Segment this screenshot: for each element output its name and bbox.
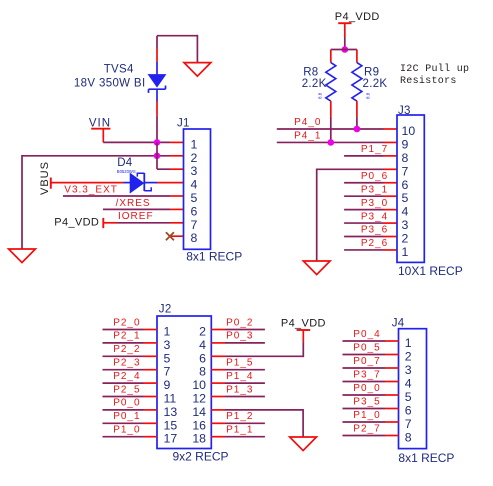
svg-text:1: 1 (191, 137, 198, 151)
svg-text:10: 10 (192, 378, 206, 392)
svg-text:P1_5: P1_5 (226, 358, 253, 369)
svg-text:P4_VDD: P4_VDD (335, 11, 380, 23)
svg-text:12: 12 (192, 392, 206, 406)
svg-text:P1_3: P1_3 (226, 384, 253, 395)
svg-text:Resistors: Resistors (400, 75, 457, 87)
svg-text:P4_VDD: P4_VDD (54, 217, 99, 229)
svg-text:2: 2 (199, 325, 206, 339)
svg-text:IOREF: IOREF (118, 211, 154, 222)
svg-text:8.8: 8.8 (318, 92, 323, 99)
svg-text:4: 4 (191, 178, 198, 192)
svg-text:J3: J3 (398, 105, 411, 117)
svg-text:J1: J1 (177, 118, 190, 130)
svg-text:1: 1 (405, 336, 412, 350)
svg-text:1: 1 (402, 245, 409, 259)
svg-text:P0_0: P0_0 (113, 398, 140, 409)
svg-text:P2_7: P2_7 (353, 423, 380, 434)
svg-text:P2_5: P2_5 (113, 384, 140, 395)
svg-text:8: 8 (402, 151, 409, 165)
svg-text:/XRES: /XRES (116, 198, 151, 209)
svg-text:2: 2 (191, 151, 198, 165)
svg-text:18: 18 (192, 432, 206, 446)
svg-text:9: 9 (164, 378, 171, 392)
svg-text:J4: J4 (392, 317, 405, 329)
svg-text:P0_2: P0_2 (226, 317, 253, 328)
svg-text:14: 14 (192, 405, 206, 419)
svg-text:P4_0: P4_0 (294, 117, 321, 128)
svg-text:P0_1: P0_1 (113, 411, 140, 422)
svg-text:15: 15 (164, 418, 178, 432)
svg-text:P1_2: P1_2 (226, 411, 253, 422)
svg-text:P1_7: P1_7 (361, 144, 388, 155)
svg-text:2.2K: 2.2K (302, 78, 327, 90)
svg-text:7: 7 (164, 365, 171, 379)
svg-text:P0_5: P0_5 (353, 342, 380, 353)
svg-text:6: 6 (402, 178, 409, 192)
svg-text:7: 7 (402, 164, 409, 178)
svg-text:P0_3: P0_3 (226, 331, 253, 342)
svg-text:5: 5 (402, 191, 409, 205)
svg-text:9x2 RECP: 9x2 RECP (173, 449, 229, 463)
svg-text:3: 3 (405, 363, 412, 377)
svg-text:3: 3 (402, 218, 409, 232)
svg-text:4: 4 (402, 205, 409, 219)
svg-text:P3_1: P3_1 (361, 184, 388, 195)
svg-text:8: 8 (199, 365, 206, 379)
svg-text:P3_7: P3_7 (353, 369, 380, 380)
svg-text:1: 1 (164, 325, 171, 339)
svg-text:17: 17 (164, 432, 178, 446)
svg-text:P0_6: P0_6 (361, 171, 388, 182)
svg-text:3: 3 (191, 164, 198, 178)
svg-text:P3_6: P3_6 (361, 225, 388, 236)
svg-text:P1_4: P1_4 (226, 371, 253, 382)
svg-text:P3_0: P3_0 (361, 198, 388, 209)
svg-text:P2_6: P2_6 (361, 238, 388, 249)
svg-text:18V 350W BI: 18V 350W BI (74, 77, 146, 89)
svg-text:10: 10 (402, 124, 416, 138)
svg-text:7: 7 (405, 417, 412, 431)
svg-text:P2_1: P2_1 (113, 331, 140, 342)
svg-text:P2_4: P2_4 (113, 371, 140, 382)
svg-text:6: 6 (191, 204, 198, 218)
svg-text:B0520WS: B0520WS (117, 169, 136, 174)
svg-text:5: 5 (164, 351, 171, 365)
svg-text:R8: R8 (303, 67, 318, 79)
svg-text:P2_2: P2_2 (113, 344, 140, 355)
svg-text:D4: D4 (117, 157, 133, 169)
svg-text:8: 8 (405, 431, 412, 445)
svg-text:9: 9 (402, 137, 409, 151)
svg-text:13: 13 (164, 405, 178, 419)
svg-text:7: 7 (191, 218, 198, 232)
svg-text:8x1 RECP: 8x1 RECP (186, 250, 242, 264)
svg-text:P0_4: P0_4 (353, 329, 380, 340)
svg-text:8.8: 8.8 (366, 92, 371, 99)
svg-text:P4_VDD: P4_VDD (281, 318, 326, 330)
svg-text:I2C Pull up: I2C Pull up (400, 63, 469, 75)
svg-text:8: 8 (191, 231, 198, 245)
svg-text:P0_7: P0_7 (353, 356, 380, 367)
svg-text:2: 2 (402, 232, 409, 246)
svg-text:P1_1: P1_1 (226, 425, 253, 436)
svg-text:P0_0: P0_0 (353, 383, 380, 394)
svg-text:VBUS: VBUS (39, 161, 51, 195)
svg-text:P4_1: P4_1 (294, 131, 321, 142)
svg-text:4: 4 (405, 377, 412, 391)
svg-text:5: 5 (405, 390, 412, 404)
svg-text:TVS4: TVS4 (104, 64, 134, 76)
svg-text:16: 16 (192, 418, 206, 432)
svg-text:R9: R9 (364, 67, 379, 79)
svg-text:P2_0: P2_0 (113, 317, 140, 328)
svg-text:V3.3_EXT: V3.3_EXT (64, 184, 118, 195)
svg-text:2.2K: 2.2K (363, 78, 388, 90)
svg-text:J2: J2 (159, 304, 172, 316)
svg-text:P3_5: P3_5 (353, 396, 380, 407)
svg-text:P1_0: P1_0 (113, 425, 140, 436)
svg-text:8x1 RECP: 8x1 RECP (398, 451, 454, 465)
svg-text:11: 11 (164, 392, 177, 406)
svg-text:4: 4 (199, 338, 206, 352)
svg-text:P1_0: P1_0 (353, 410, 380, 421)
svg-text:2: 2 (405, 350, 412, 364)
svg-text:5: 5 (191, 191, 198, 205)
svg-text:6: 6 (405, 404, 412, 418)
svg-text:P2_3: P2_3 (113, 358, 140, 369)
svg-text:3: 3 (164, 338, 171, 352)
svg-text:6: 6 (199, 351, 206, 365)
svg-text:10X1 RECP: 10X1 RECP (398, 264, 463, 278)
svg-text:P3_4: P3_4 (361, 211, 388, 222)
